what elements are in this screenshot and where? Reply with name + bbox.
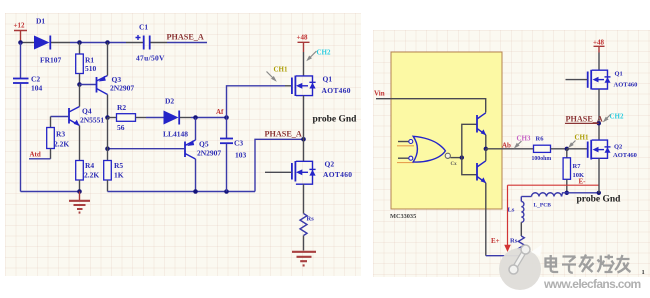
wire upper emitter to midpoint	[485, 135, 487, 149]
svg-text:2.2K: 2.2K	[84, 171, 99, 180]
wire Q3 base	[80, 84, 97, 86]
svg-text:AOT460: AOT460	[322, 86, 351, 95]
svg-text:CH1: CH1	[274, 66, 289, 74]
svg-text:CH2: CH2	[610, 113, 625, 121]
wire C1 to net PHASE_A	[167, 42, 207, 44]
svg-text:103: 103	[235, 151, 247, 160]
wire +12 rail to D1 anode	[21, 42, 35, 44]
power +48 left panel	[297, 34, 310, 53]
svg-text:AOT460: AOT460	[323, 170, 352, 179]
svg-text:Ab: Ab	[502, 142, 511, 150]
ground GND2	[292, 252, 316, 266]
svg-text:AOT460: AOT460	[614, 82, 638, 89]
transistor driver lower NPN	[477, 161, 486, 183]
svg-text:Q2: Q2	[614, 144, 622, 151]
wire R7 node to Q2 source	[567, 192, 599, 194]
wire +48 to Q1 drain	[303, 52, 305, 76]
sense annotation E- / E+	[491, 178, 599, 253]
svg-text:CH3: CH3	[517, 135, 532, 143]
net label PHASE_A (right)	[565, 114, 603, 123]
wire ground rail left	[21, 191, 80, 193]
probe CH2 (left)	[306, 49, 331, 62]
svg-text:CH2: CH2	[317, 49, 332, 57]
probe CH1 (left)	[267, 66, 289, 82]
pin D1 cathode	[51, 42, 70, 44]
pin Q2 gate stub	[265, 171, 292, 173]
wire R2 to D2	[146, 117, 164, 119]
svg-text:PHASE_A: PHASE_A	[167, 33, 204, 42]
transistor Q5 2N2907	[185, 140, 221, 160]
wire Q4 base	[51, 116, 70, 118]
svg-text:AOT460: AOT460	[613, 152, 637, 159]
svg-text:probe Gnd: probe Gnd	[577, 195, 622, 205]
watermark logo disc	[499, 245, 542, 291]
svg-text:Atd: Atd	[30, 151, 41, 159]
inductor Ls	[508, 197, 524, 223]
svg-text:PHASE_A: PHASE_A	[566, 114, 603, 123]
svg-text:C1: C1	[139, 23, 148, 32]
svg-text:R4: R4	[85, 161, 94, 170]
wire Q5 emitter	[195, 118, 197, 141]
wire Q5 collector to rail	[195, 159, 197, 192]
MOSFET Q2 AOT460 (left)	[292, 160, 352, 185]
wire Rs bottom to driver emitter	[486, 250, 522, 255]
svg-text:+48: +48	[593, 39, 604, 47]
MOSFET Q2 AOT460 (right)	[588, 140, 637, 160]
svg-text:1: 1	[642, 269, 645, 276]
svg-text:R5: R5	[114, 161, 123, 170]
wire driver output Ab to R6	[486, 148, 534, 150]
junction Q3 emitter rail	[105, 40, 110, 45]
IC block U1 MC33035	[390, 52, 502, 220]
svg-text:E-: E-	[579, 178, 587, 186]
capacitor C1 47u/50V	[126, 23, 167, 63]
pin D2 cathode	[180, 117, 191, 119]
wire D2 to node Af	[191, 117, 227, 119]
wire Q3 emitter to rail	[107, 43, 109, 76]
svg-text:R6: R6	[536, 136, 545, 143]
svg-text:C2: C2	[31, 75, 40, 84]
wire Vin to driver collector	[376, 99, 486, 113]
svg-text:MC33035: MC33035	[390, 213, 416, 220]
pin Q1 gate stub (right)	[566, 79, 588, 81]
svg-text:D1: D1	[36, 17, 45, 26]
svg-text:D2: D2	[165, 97, 174, 106]
resistor R2 56	[108, 103, 147, 132]
junction R2 left node	[105, 115, 110, 120]
svg-text:PHASE_A: PHASE_A	[265, 130, 302, 139]
svg-text:+12: +12	[14, 22, 25, 30]
transistor Q3 2N2907	[97, 75, 135, 95]
wire bottom rail	[108, 191, 256, 193]
junction Q5 emitter branch	[193, 115, 198, 120]
power +48 (right)	[593, 39, 605, 53]
resistor Rs (left)	[300, 214, 314, 236]
wire to driver bases	[462, 124, 477, 174]
junction R1 top	[77, 40, 82, 45]
inductor L_PCB	[521, 193, 567, 209]
svg-text:Q1: Q1	[615, 71, 623, 78]
svg-text:R7: R7	[573, 163, 582, 170]
junction R7 bottom	[565, 191, 569, 195]
svg-text:Q2: Q2	[325, 160, 335, 169]
svg-text:Q5: Q5	[199, 140, 209, 149]
svg-text:2.2K: 2.2K	[54, 140, 69, 149]
wire Q4 collector up	[79, 85, 81, 107]
wire Q3 collector down	[107, 95, 109, 118]
wire gate output	[450, 157, 461, 159]
junction half-bridge midpoint	[301, 137, 306, 142]
svg-text:Vin: Vin	[374, 90, 385, 98]
wire Q1 source to Q2 drain (right)	[598, 89, 600, 140]
wire net PHASE_A riser to half bridge	[255, 139, 302, 191]
svg-text:LL4148: LL4148	[163, 130, 188, 139]
wire Ls to Rs	[520, 222, 522, 236]
power +12	[14, 22, 28, 43]
wire lower collector to midpoint	[485, 149, 487, 161]
wire Rs to ground	[303, 236, 305, 251]
probe CH2 (right)	[603, 113, 624, 123]
pin Q1 gate	[285, 85, 292, 87]
svg-text:2N2907: 2N2907	[197, 149, 221, 158]
ground GND1	[69, 192, 90, 213]
svg-text:L_PCB: L_PCB	[534, 203, 552, 209]
junction net PHASE_A (right)	[597, 121, 601, 125]
svg-text:Rs: Rs	[510, 238, 518, 245]
svg-text:probe Gnd: probe Gnd	[313, 115, 358, 125]
resistor Rs (right)	[510, 236, 524, 250]
junction Q5 collector bottom	[193, 189, 198, 194]
svg-text:47u/50V: 47u/50V	[136, 54, 165, 63]
junction driver midpoint	[484, 147, 488, 151]
MOSFET Q1 AOT460 (right)	[588, 70, 638, 90]
wire Q5 base	[108, 148, 186, 150]
svg-text:Af: Af	[216, 108, 224, 116]
pin Q2 gate (right)	[567, 148, 588, 150]
svg-text:100ohm: 100ohm	[532, 156, 552, 162]
capacitor C3 103	[220, 139, 247, 192]
probe CH1 (right)	[568, 134, 589, 149]
watermark chinese brand glyphs	[546, 255, 631, 273]
svg-text:CH1: CH1	[575, 134, 590, 142]
wire Q1 source to Q2 drain	[303, 96, 305, 161]
wire gate node Af riser	[227, 86, 286, 118]
junction node Af	[224, 115, 229, 120]
junction R1 bottom / Q3 base node	[77, 82, 82, 87]
svg-text:104: 104	[31, 84, 43, 93]
svg-text:E+: E+	[491, 237, 500, 245]
svg-text:2N2907: 2N2907	[110, 84, 134, 93]
svg-text:www.elecfans.com: www.elecfans.com	[543, 277, 641, 291]
resistor R6 100ohm	[532, 136, 552, 163]
svg-text:1K: 1K	[114, 171, 124, 180]
junction C3 bottom	[224, 189, 229, 194]
wire Af to C3	[226, 118, 228, 139]
wire R6 to gate node	[551, 148, 567, 150]
junction R4 bottom / ground	[77, 189, 82, 194]
svg-text:Q4: Q4	[82, 107, 92, 116]
wire top rail	[70, 42, 126, 44]
wire +48 to Q1 drain (right)	[598, 53, 600, 71]
svg-text:R3: R3	[56, 130, 65, 139]
or-gate U1A	[397, 136, 457, 167]
junction +12 node	[18, 40, 23, 45]
resistor R3 2.2K	[47, 117, 70, 159]
diode D2 LL4148	[163, 97, 188, 139]
diode D1 FR107	[34, 17, 61, 65]
wire node down to R5	[107, 118, 109, 161]
wire Q4 emitter to R4	[79, 126, 81, 161]
junction gate output	[460, 155, 464, 159]
resistor R7 10K	[563, 149, 584, 193]
MOSFET Q1 AOT460 (left)	[292, 75, 351, 97]
capacitor C2 104	[13, 43, 43, 192]
svg-text:56: 56	[117, 123, 125, 132]
transistor driver upper NPN	[477, 113, 486, 135]
svg-text:510: 510	[85, 64, 97, 73]
svg-text:2N5551: 2N5551	[80, 116, 104, 125]
junction Q5 base node	[105, 146, 110, 151]
wire lower emitter down	[485, 183, 487, 256]
svg-text:C3: C3	[234, 139, 243, 148]
svg-text:Q1: Q1	[323, 75, 333, 84]
svg-text:+48: +48	[297, 34, 308, 42]
svg-text:Cx: Cx	[451, 162, 458, 167]
svg-text:Rs: Rs	[307, 216, 315, 223]
resistor R1 510	[76, 43, 97, 85]
svg-text:R2: R2	[117, 103, 126, 112]
junction Q2 source node	[597, 191, 601, 195]
svg-text:FR107: FR107	[40, 56, 61, 65]
svg-text:Ls: Ls	[508, 207, 515, 214]
wire Q2 source down (right)	[598, 158, 600, 193]
probe CH3	[514, 135, 531, 149]
resistor R5 1K	[104, 161, 124, 192]
junction R6 R7 gate	[565, 147, 569, 151]
resistor R4 2.2K	[76, 161, 100, 192]
net label Atd with stub wire	[29, 151, 51, 159]
wire Q2 source to Rs	[303, 184, 305, 213]
transistor Q4 2N5551	[69, 107, 104, 126]
